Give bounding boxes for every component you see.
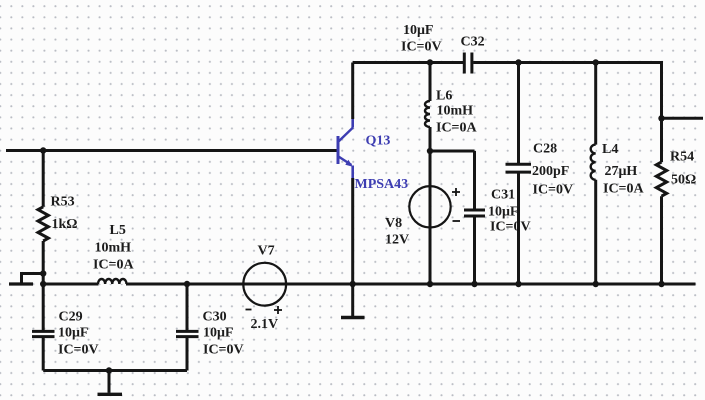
node: R54 bottom junction (658, 281, 664, 287)
resistor R54 (656, 162, 666, 196)
wire: mid rail right segment (y=284) (126, 283, 696, 286)
node: R53 top junction (40, 147, 46, 153)
wire: V8 to C31 connector (y=151) (430, 150, 475, 153)
svg-text:IC=0A: IC=0A (436, 121, 478, 136)
inductor L4 (591, 145, 596, 180)
ground (bottom left) (98, 371, 123, 395)
svg-text:IC=0A: IC=0A (603, 182, 645, 197)
node: L6 top junction (427, 59, 433, 65)
wire: L6 bottom lead (429, 127, 432, 151)
wire: L4 top lead (594, 63, 597, 145)
svg-text:10μF: 10μF (203, 326, 234, 341)
wire: V8 top lead (429, 151, 432, 186)
node: C28 bottom junction (515, 281, 521, 287)
svg-text:L6: L6 (436, 89, 452, 104)
node: L4 top junction (593, 59, 599, 65)
svg-text:200pF: 200pF (532, 164, 569, 179)
wire: lower rail (y=370.5) (43, 369, 187, 372)
svg-text:2.1V: 2.1V (251, 317, 279, 332)
wire: C30 bottom lead (186, 338, 189, 371)
node: R54 tap junction (658, 115, 664, 121)
wire: C28 top lead (517, 63, 520, 164)
wire: L6 top lead (429, 63, 432, 102)
wire: C31 top lead (473, 151, 476, 209)
wire: base rail (y=150.5) (6, 149, 337, 152)
svg-text:C29: C29 (59, 310, 83, 325)
svg-text:C31: C31 (491, 188, 515, 203)
node: C28 top junction (515, 59, 521, 65)
svg-text:27μH: 27μH (605, 164, 638, 179)
svg-text:C28: C28 (533, 142, 557, 157)
wire: input step wire (22, 274, 44, 283)
svg-text:L5: L5 (110, 223, 126, 238)
svg-text:1kΩ: 1kΩ (52, 217, 78, 232)
wire: C30 top lead (186, 284, 189, 330)
wire: R53 bottom lead down to C29 (42, 241, 45, 330)
svg-text:10μF: 10μF (403, 23, 434, 38)
svg-text:10μF: 10μF (488, 205, 519, 220)
wire: top rail right segment (C32 right to corner) (473, 63, 661, 119)
capacitor C31 (464, 210, 485, 216)
voltage source V8 (409, 186, 450, 227)
svg-text:IC=0V: IC=0V (203, 343, 244, 358)
node: L6 bottom junction (427, 148, 433, 154)
wire: collector lead up (351, 63, 354, 128)
svg-text:12V: 12V (385, 233, 409, 248)
svg-text:C30: C30 (203, 310, 227, 325)
svg-text:IC=0V: IC=0V (533, 183, 574, 198)
svg-text:10mH: 10mH (95, 241, 132, 256)
wire: top rail left segment (collector net, y=62.5) (353, 61, 464, 64)
svg-text:IC=0V: IC=0V (401, 40, 442, 55)
node: C30 top junction (184, 281, 190, 287)
polarity V7 minus (246, 309, 252, 311)
svg-text:50Ω: 50Ω (671, 173, 696, 188)
svg-text:10μF: 10μF (58, 326, 89, 341)
node: C31 bottom junction (471, 281, 477, 287)
wire: R53 top lead (42, 151, 45, 207)
svg-text:IC=0A: IC=0A (93, 258, 135, 273)
wire: mid rail left segment (y=284) (43, 283, 98, 286)
wire: V8 through-circle wire (429, 186, 432, 284)
svg-text:Q13: Q13 (366, 134, 391, 149)
ground (emitter) (341, 284, 365, 318)
wire: input terminal bar (9, 282, 33, 285)
node: junction at (43,284) (40, 281, 46, 287)
svg-text:R54: R54 (670, 150, 694, 165)
capacitor C28 (506, 164, 532, 172)
capacitor C29 (32, 331, 55, 336)
capacitor C32 (464, 53, 472, 74)
node: ground junction on lower rail (106, 367, 112, 373)
wire: emitter lead down (351, 166, 354, 285)
wire: C28 bottom lead (517, 174, 520, 285)
capacitor C30 (176, 331, 199, 336)
svg-text:C32: C32 (461, 35, 485, 50)
node: emitter junction on mid rail (350, 281, 356, 287)
wire: R54 bottom lead (660, 196, 663, 284)
svg-text:L4: L4 (602, 142, 618, 157)
polarity V8 plus (452, 188, 460, 196)
inductor L5 (98, 279, 126, 284)
node: L4 bottom junction (593, 281, 599, 287)
svg-text:MPSA43: MPSA43 (355, 177, 409, 192)
wire: C31 bottom lead (473, 217, 476, 284)
node: V8 bottom junction (427, 281, 433, 287)
svg-text:10mH: 10mH (437, 104, 474, 119)
svg-text:V7: V7 (258, 244, 275, 259)
node: junction at (43,273.5) (40, 270, 46, 276)
polarity V7 plus (274, 306, 282, 314)
wire: L4 bottom lead (594, 180, 597, 284)
voltage source V7 (243, 263, 286, 306)
wire: R54 top lead (660, 118, 663, 162)
svg-text:V8: V8 (385, 216, 402, 231)
wire: output stub right (662, 117, 704, 120)
svg-text:IC=0V: IC=0V (58, 343, 99, 358)
svg-text:IC=0V: IC=0V (490, 220, 531, 235)
svg-text:R53: R53 (51, 195, 75, 210)
wire: C29 bottom lead (42, 338, 45, 371)
polarity V8 minus (453, 220, 461, 222)
inductor L6 (425, 101, 430, 127)
resistor R53 (38, 207, 48, 241)
transistor Q13 (NPN) (338, 128, 353, 167)
